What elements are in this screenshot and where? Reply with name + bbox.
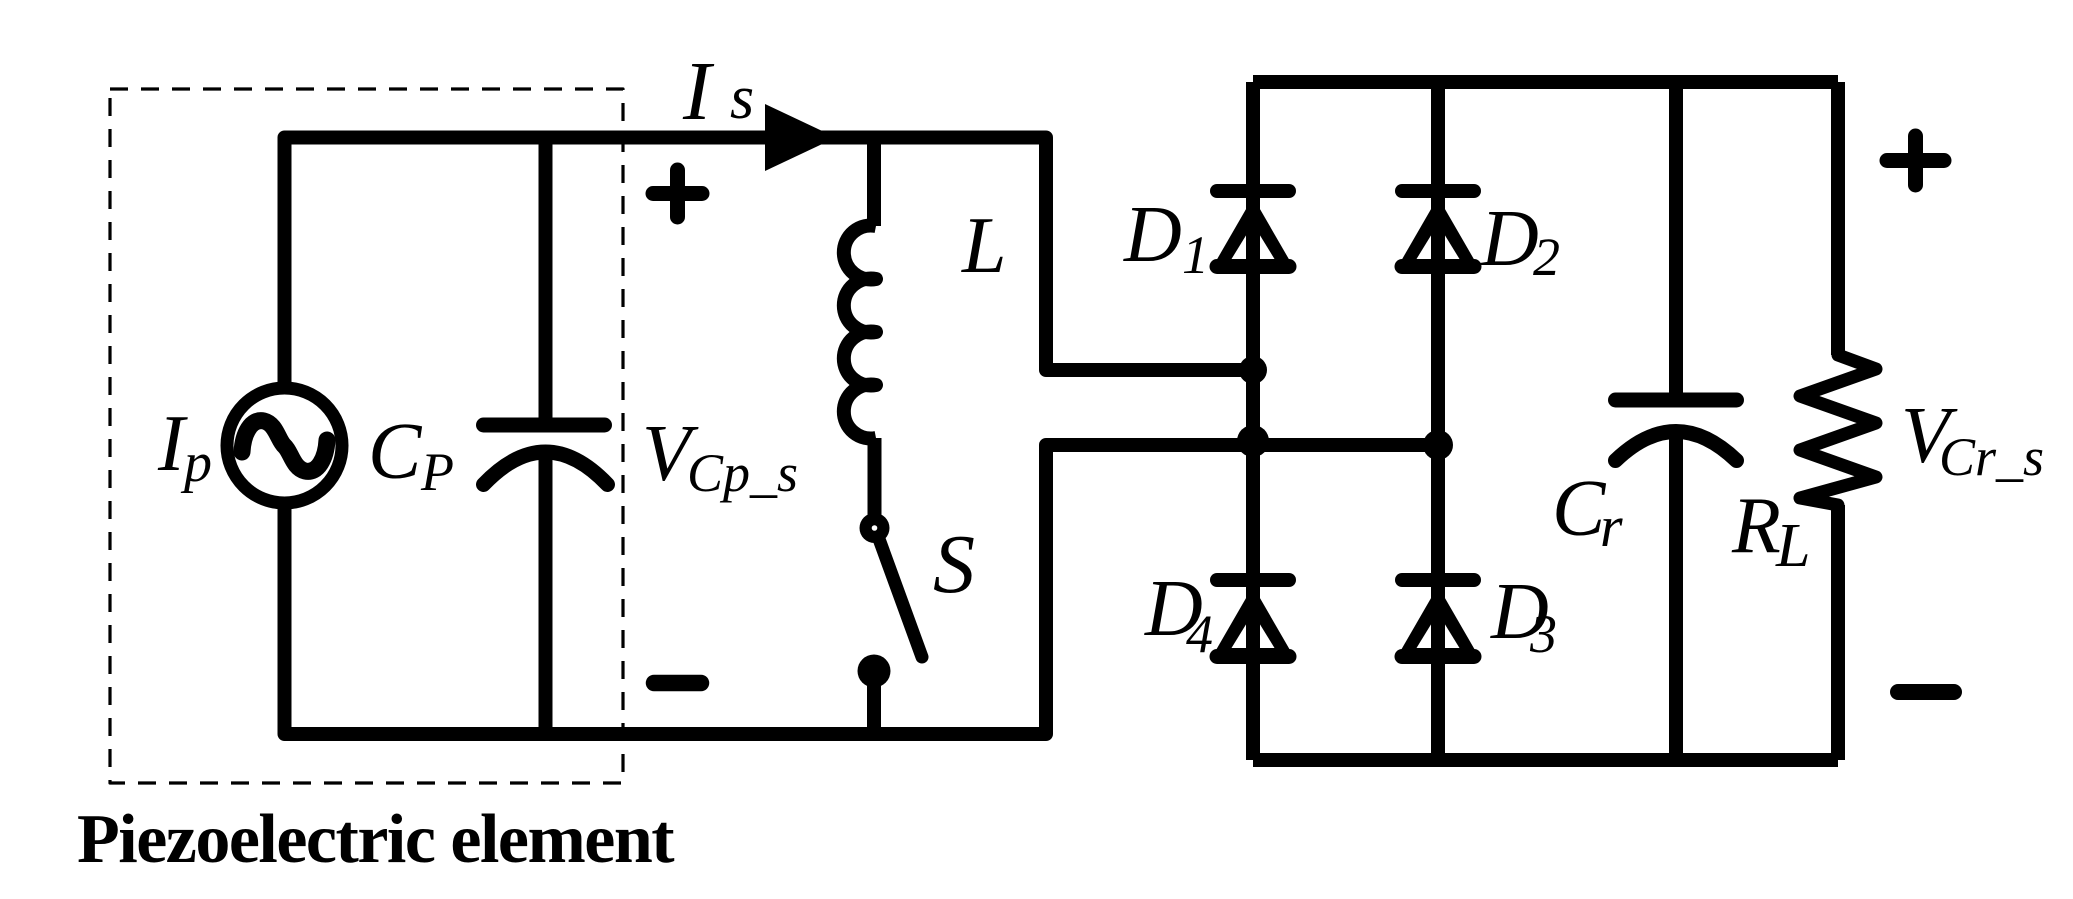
label CP bbox=[368, 408, 454, 502]
label RL bbox=[1731, 482, 1810, 580]
bridge second branch wire (D2 D3) bbox=[1431, 82, 1445, 760]
label D1 bbox=[1123, 191, 1209, 285]
capacitor Cr branch wire bottom bbox=[1669, 434, 1683, 760]
svg-text:S: S bbox=[933, 518, 975, 611]
svg-text:C: C bbox=[368, 408, 423, 496]
capacitor CP bbox=[484, 425, 608, 485]
capacitor Cr bbox=[1616, 400, 1737, 461]
svg-text:p: p bbox=[180, 432, 212, 494]
wire top path: source top to bridge upper input node bbox=[285, 138, 1251, 386]
node upper input junction bbox=[1239, 356, 1267, 384]
svg-text:D: D bbox=[1123, 191, 1182, 279]
svg-text:1: 1 bbox=[1182, 225, 1209, 285]
inductor L bbox=[844, 226, 876, 439]
svg-text:Cr_s: Cr_s bbox=[1939, 427, 2044, 487]
bridge top rail bbox=[1253, 75, 1838, 89]
minus sign left (VCp_s negative) bbox=[654, 675, 701, 692]
label Is bbox=[682, 45, 754, 138]
svg-text:R: R bbox=[1731, 482, 1781, 570]
node lower input junction right bbox=[1423, 430, 1453, 460]
wire capacitor CP branch (top) bbox=[539, 138, 553, 426]
svg-text:Cp_s: Cp_s bbox=[687, 443, 798, 503]
label Cr bbox=[1552, 465, 1623, 559]
switch S bbox=[858, 513, 923, 734]
label L bbox=[961, 202, 1007, 290]
dashed box piezoelectric element boundary bbox=[110, 89, 623, 783]
plus sign left (VCp_s positive) bbox=[653, 170, 702, 217]
svg-text:D: D bbox=[1480, 195, 1539, 283]
label VCr_s bbox=[1901, 392, 2044, 487]
label S bbox=[933, 518, 975, 611]
bridge left branch wire (D1 D4) bbox=[1246, 82, 1260, 760]
diode D3 bbox=[1397, 580, 1479, 659]
svg-text:L: L bbox=[961, 202, 1007, 290]
arrow head of current Is on top wire bbox=[765, 104, 836, 171]
svg-text:2: 2 bbox=[1533, 227, 1560, 287]
plus sign right (VCr_s positive) bbox=[1887, 136, 1944, 185]
svg-text:I: I bbox=[682, 45, 715, 138]
node lower input junction left bbox=[1237, 425, 1269, 457]
label Piezoelectric element bbox=[77, 801, 674, 878]
resistor RL branch wire top bbox=[1831, 82, 1845, 355]
diode D4 bbox=[1212, 580, 1294, 659]
svg-text:4: 4 bbox=[1186, 604, 1213, 664]
svg-text:C: C bbox=[1552, 465, 1607, 553]
capacitor Cr branch wire top bbox=[1669, 82, 1683, 400]
svg-text:P: P bbox=[420, 442, 454, 502]
resistor RL bbox=[1800, 355, 1876, 505]
svg-text:3: 3 bbox=[1529, 604, 1557, 664]
label D4 bbox=[1144, 565, 1213, 664]
label D2 bbox=[1480, 195, 1560, 287]
resistor RL branch wire bottom bbox=[1831, 505, 1845, 760]
wire capacitor CP branch (bottom) bbox=[539, 452, 553, 734]
current source Ip bbox=[227, 388, 342, 503]
wire bottom path: source bottom to bridge lower input node bbox=[285, 445, 1436, 734]
label D3 bbox=[1490, 568, 1557, 664]
diode D2 bbox=[1397, 191, 1479, 270]
wire inductor to switch bbox=[868, 438, 882, 521]
svg-text:r: r bbox=[1600, 494, 1623, 559]
minus sign right (VCr_s negative) bbox=[1898, 684, 1954, 700]
diode D1 bbox=[1212, 191, 1294, 270]
inductor L branch wire (top) bbox=[867, 138, 881, 227]
svg-text:L: L bbox=[1775, 512, 1810, 580]
label Ip bbox=[157, 400, 212, 494]
svg-text:s: s bbox=[730, 64, 754, 132]
bridge bottom rail bbox=[1253, 753, 1838, 767]
svg-text:Piezoelectric element: Piezoelectric element bbox=[77, 801, 674, 878]
label VCp_s bbox=[642, 410, 798, 503]
